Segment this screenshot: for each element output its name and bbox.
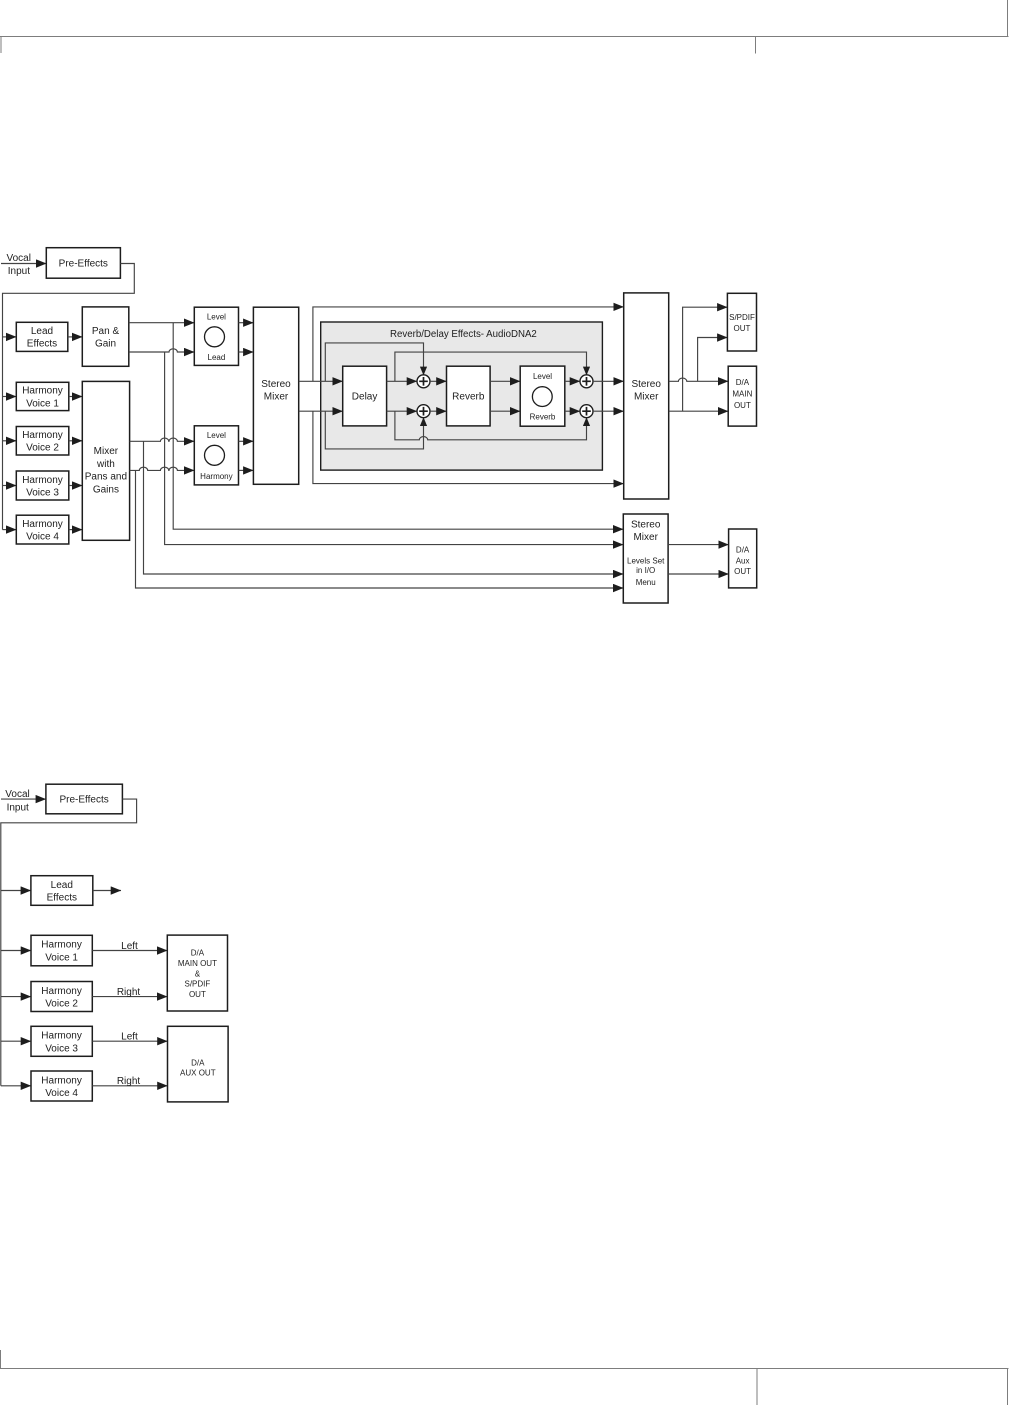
block Harmony Voice 2 (diagram 1) <box>16 427 69 456</box>
wire Harmony Voice 2 to Mixer <box>69 440 83 442</box>
svg-text:AUX OUT: AUX OUT <box>180 1069 216 1078</box>
svg-text:Harmony: Harmony <box>41 1075 82 1086</box>
page frame bottom column vertical <box>756 1369 758 1405</box>
wire dry right bypass around effects to Stereo Mixer 2 <box>313 411 624 483</box>
svg-text:Voice 1: Voice 1 <box>26 398 59 409</box>
box Reverb Delay Effects AudioDNA2 (shaded region) <box>321 322 603 470</box>
block Lead Effects (diagram 1) <box>16 322 68 351</box>
svg-text:D/A: D/A <box>736 546 750 555</box>
wire input bus into Lead Effects (diagram 2) <box>1 890 31 892</box>
wire Harmony Voice 4 Right output to D/A Aux (diagram 2) <box>92 1076 167 1087</box>
svg-text:Levels Set: Levels Set <box>627 556 665 565</box>
wire Level Harmony left to Stereo Mixer 1 <box>239 440 254 442</box>
svg-text:Left: Left <box>121 941 138 952</box>
wire summer 4 to Stereo Mixer 2 <box>593 410 624 412</box>
wire Level Reverb bottom to summer 4 <box>565 410 580 412</box>
wire input bus into Harmony Voice 4 <box>3 529 17 531</box>
svg-text:Voice 2: Voice 2 <box>26 443 59 454</box>
svg-text:Voice 4: Voice 4 <box>26 532 59 543</box>
block Stereo Mixer 1 <box>253 307 298 484</box>
svg-text:Level: Level <box>207 431 226 440</box>
svg-text:Lead: Lead <box>208 353 226 362</box>
svg-text:Pan &: Pan & <box>92 326 120 337</box>
page frame top column tick <box>755 37 757 54</box>
svg-text:D/A: D/A <box>191 1058 205 1067</box>
block Harmony Voice 4 (diagram 1) <box>16 515 69 544</box>
wire aux mixer right output to D/A Aux Out <box>668 573 729 575</box>
svg-text:Voice 2: Voice 2 <box>45 999 78 1010</box>
svg-text:Vocal: Vocal <box>6 253 30 264</box>
svg-text:Pre-Effects: Pre-Effects <box>59 259 108 270</box>
svg-text:Mixer: Mixer <box>634 392 659 403</box>
block aux Stereo Mixer Levels Set in I/O Menu <box>623 514 668 603</box>
wire branch lower output to S/PDIF upper input <box>683 307 728 411</box>
svg-text:Mixer: Mixer <box>264 392 289 403</box>
wire dry left bypass around effects to Stereo Mixer 2 <box>313 307 624 381</box>
wire harmony left tap down to aux stereo mixer <box>144 441 624 574</box>
wire branch upper output to S/PDIF lower input <box>698 338 728 382</box>
svg-text:Aux: Aux <box>736 556 750 565</box>
svg-text:Voice 1: Voice 1 <box>45 952 78 963</box>
wire Harmony Voice 1 Left output to D/A Main (diagram 2) <box>92 941 167 952</box>
svg-text:MAIN OUT: MAIN OUT <box>178 959 217 968</box>
wire input bus into Harmony Voice 2 <box>3 440 17 442</box>
wire Stereo Mixer 2 lower output to D/A Main Out <box>669 410 729 412</box>
wire harmony right tap down to aux stereo mixer <box>136 470 624 588</box>
wire Reverb top output to Level Reverb <box>490 380 520 382</box>
svg-text:in I/O: in I/O <box>636 566 655 575</box>
wire Pan and Gain left output to Level Lead <box>129 322 195 324</box>
svg-text:Voice 3: Voice 3 <box>45 1043 78 1054</box>
wire input bus into Harmony Voice 3 (diagram 2) <box>1 1040 31 1042</box>
svg-text:Stereo: Stereo <box>261 379 291 390</box>
svg-text:Reverb: Reverb <box>452 392 485 403</box>
wire input bus into Lead Effects <box>3 336 17 338</box>
svg-text:&: & <box>195 969 201 978</box>
page frame bottom rule <box>0 1368 1009 1370</box>
svg-text:Effects: Effects <box>27 339 57 350</box>
summer 3 <box>580 375 593 388</box>
svg-text:S/PDIF: S/PDIF <box>729 313 755 322</box>
wire input bus into Harmony Voice 3 <box>3 485 17 487</box>
block Pre-Effects (diagram 2) <box>46 784 123 814</box>
node Vocal Input (diagram 2) <box>5 789 29 814</box>
svg-text:with: with <box>96 459 115 470</box>
wire vocal input into Pre-Effects (diagram 1) <box>1 263 46 265</box>
summer 2 <box>417 405 430 418</box>
wire Stereo Mixer 2 upper output to D/A Main Out <box>669 378 729 381</box>
wire Delay bottom output into summer 2 <box>387 410 417 412</box>
page frame bottom right vertical <box>1007 1369 1009 1405</box>
wire Pre-Effects output loop to input bus (diagram 1) <box>3 264 135 530</box>
svg-text:Left: Left <box>121 1032 138 1043</box>
summer 1 <box>417 375 430 388</box>
svg-text:Gain: Gain <box>95 338 116 349</box>
svg-text:D/A: D/A <box>736 378 750 387</box>
page frame bottom left tick <box>0 1350 2 1369</box>
wire Harmony Voice 3 Left output to D/A Aux (diagram 2) <box>92 1032 167 1043</box>
block Pan and Gain <box>82 307 129 366</box>
svg-text:Lead: Lead <box>51 880 73 891</box>
svg-text:OUT: OUT <box>734 324 751 333</box>
wire Mixer left output to Level Harmony <box>130 438 195 441</box>
wire input bus into Harmony Voice 2 (diagram 2) <box>1 996 31 998</box>
svg-text:OUT: OUT <box>734 567 751 576</box>
block Harmony Voice 2 (diagram 2) <box>31 982 92 1012</box>
svg-text:Voice 4: Voice 4 <box>45 1088 78 1099</box>
wire Reverb bottom output to Level Reverb <box>490 410 520 412</box>
wire Harmony Voice 3 to Mixer <box>69 485 83 487</box>
svg-text:Harmony: Harmony <box>22 386 63 397</box>
block Harmony Voice 4 (diagram 2) <box>31 1071 92 1101</box>
svg-text:Stereo: Stereo <box>631 379 661 390</box>
page frame top rule <box>0 36 1009 38</box>
svg-text:Harmony: Harmony <box>22 519 63 530</box>
block Harmony Voice 3 (diagram 1) <box>16 471 69 500</box>
page frame top left tick <box>0 37 2 54</box>
svg-text:Mixer: Mixer <box>633 532 658 543</box>
svg-text:OUT: OUT <box>734 401 751 410</box>
wire Lead Effects output arrow (diagram 2) <box>93 890 121 892</box>
svg-text:Lead: Lead <box>31 326 53 337</box>
svg-text:Harmony: Harmony <box>22 475 63 486</box>
svg-text:Right: Right <box>117 1076 141 1087</box>
wire summer 1 to Reverb <box>430 380 447 382</box>
wire reverb bypass bottom into summer 4 <box>395 411 587 440</box>
wire Level Harmony right to Stereo Mixer 1 <box>239 469 254 471</box>
svg-text:Input: Input <box>7 802 29 813</box>
wire Delay top output into summer 1 <box>387 380 417 382</box>
block Harmony Voice 3 (diagram 2) <box>31 1026 92 1056</box>
svg-text:Vocal: Vocal <box>5 789 29 800</box>
block Lead Effects (diagram 2) <box>31 876 93 906</box>
wire delay dry mix bottom into summer 2 <box>325 411 423 449</box>
svg-text:Level: Level <box>533 372 552 381</box>
wire Level Lead left to Stereo Mixer 1 <box>239 322 254 324</box>
block Delay <box>343 366 387 426</box>
node Vocal Input (diagram 1) <box>6 253 30 277</box>
svg-text:MAIN: MAIN <box>732 390 752 399</box>
wire lead left tap down to aux stereo mixer <box>173 323 623 530</box>
block Level Harmony knob <box>194 426 238 485</box>
svg-text:Reverb: Reverb <box>530 412 556 421</box>
wire vocal input into Pre-Effects (diagram 2) <box>1 798 46 800</box>
wire summer 2 to Reverb <box>430 410 447 412</box>
block Level Lead knob <box>194 307 238 365</box>
wire Pre-Effects output loop to input bus (diagram 2) <box>1 799 137 1086</box>
svg-text:Menu: Menu <box>636 578 656 587</box>
wire input bus into Harmony Voice 1 <box>3 396 17 398</box>
svg-text:D/A: D/A <box>191 949 205 958</box>
svg-text:S/PDIF: S/PDIF <box>185 980 211 989</box>
block S/PDIF OUT <box>727 293 756 351</box>
wire Harmony Voice 4 to Mixer <box>69 529 83 531</box>
wire summer 3 to Stereo Mixer 2 <box>593 380 624 382</box>
block Stereo Mixer 2 <box>624 293 669 499</box>
block Harmony Voice 1 (diagram 2) <box>31 935 92 966</box>
svg-text:Harmony: Harmony <box>41 986 82 997</box>
svg-text:Mixer: Mixer <box>94 446 119 457</box>
svg-text:Pre-Effects: Pre-Effects <box>59 795 108 806</box>
wire Level Lead right to Stereo Mixer 1 <box>239 351 254 353</box>
svg-text:Harmony: Harmony <box>200 472 232 481</box>
block Reverb <box>447 366 491 426</box>
svg-text:Harmony: Harmony <box>41 1031 82 1042</box>
wire lead right tap down to aux stereo mixer <box>165 352 624 545</box>
wire Stereo Mixer 1 top output into Delay <box>299 380 343 382</box>
svg-text:Harmony: Harmony <box>41 940 82 951</box>
svg-text:Gains: Gains <box>93 484 119 495</box>
svg-text:Input: Input <box>8 266 30 277</box>
block Level Reverb knob <box>520 366 565 426</box>
block Harmony Voice 1 (diagram 1) <box>16 382 69 410</box>
block Pre-Effects (diagram 1) <box>46 248 120 279</box>
block D/A MAIN OUT and S/PDIF OUT (diagram 2) <box>167 935 227 1011</box>
svg-text:Level: Level <box>207 313 226 322</box>
block Mixer with Pans and Gains <box>82 381 129 540</box>
wire input bus into Harmony Voice 1 (diagram 2) <box>1 950 31 952</box>
block D/A Aux OUT <box>729 529 757 588</box>
svg-text:OUT: OUT <box>189 990 206 999</box>
svg-text:Voice 3: Voice 3 <box>26 488 59 499</box>
block D/A AUX OUT (diagram 2) <box>168 1026 229 1102</box>
wire Level Reverb top to summer 3 <box>565 380 580 382</box>
wire reverb bypass top into summer 3 <box>395 352 587 381</box>
svg-text:Reverb/Delay Effects- AudioDNA: Reverb/Delay Effects- AudioDNA2 <box>390 329 537 340</box>
wire Harmony Voice 2 Right output to D/A Main (diagram 2) <box>92 987 167 998</box>
wire Harmony Voice 1 to Mixer <box>69 396 83 398</box>
svg-text:Pans and: Pans and <box>85 472 127 483</box>
wire input bus into Harmony Voice 4 (diagram 2) <box>1 1085 31 1087</box>
svg-text:Delay: Delay <box>352 392 378 403</box>
svg-text:Effects: Effects <box>47 892 77 903</box>
wire Mixer right output to Level Harmony <box>130 467 195 470</box>
svg-text:Stereo: Stereo <box>631 520 661 531</box>
svg-text:Right: Right <box>117 987 141 998</box>
page frame top right vertical <box>1007 0 1009 37</box>
summer 4 <box>580 405 593 418</box>
svg-text:Harmony: Harmony <box>22 430 63 441</box>
wire Stereo Mixer 1 bottom output into Delay <box>299 410 343 412</box>
wire aux mixer left output to D/A Aux Out <box>668 544 729 546</box>
wire delay dry mix top into summer 1 <box>325 343 423 381</box>
wire Pan and Gain right output to Level Lead <box>129 349 195 352</box>
wire Lead Effects to Pan and Gain <box>68 336 83 338</box>
block D/A MAIN OUT <box>728 366 756 426</box>
